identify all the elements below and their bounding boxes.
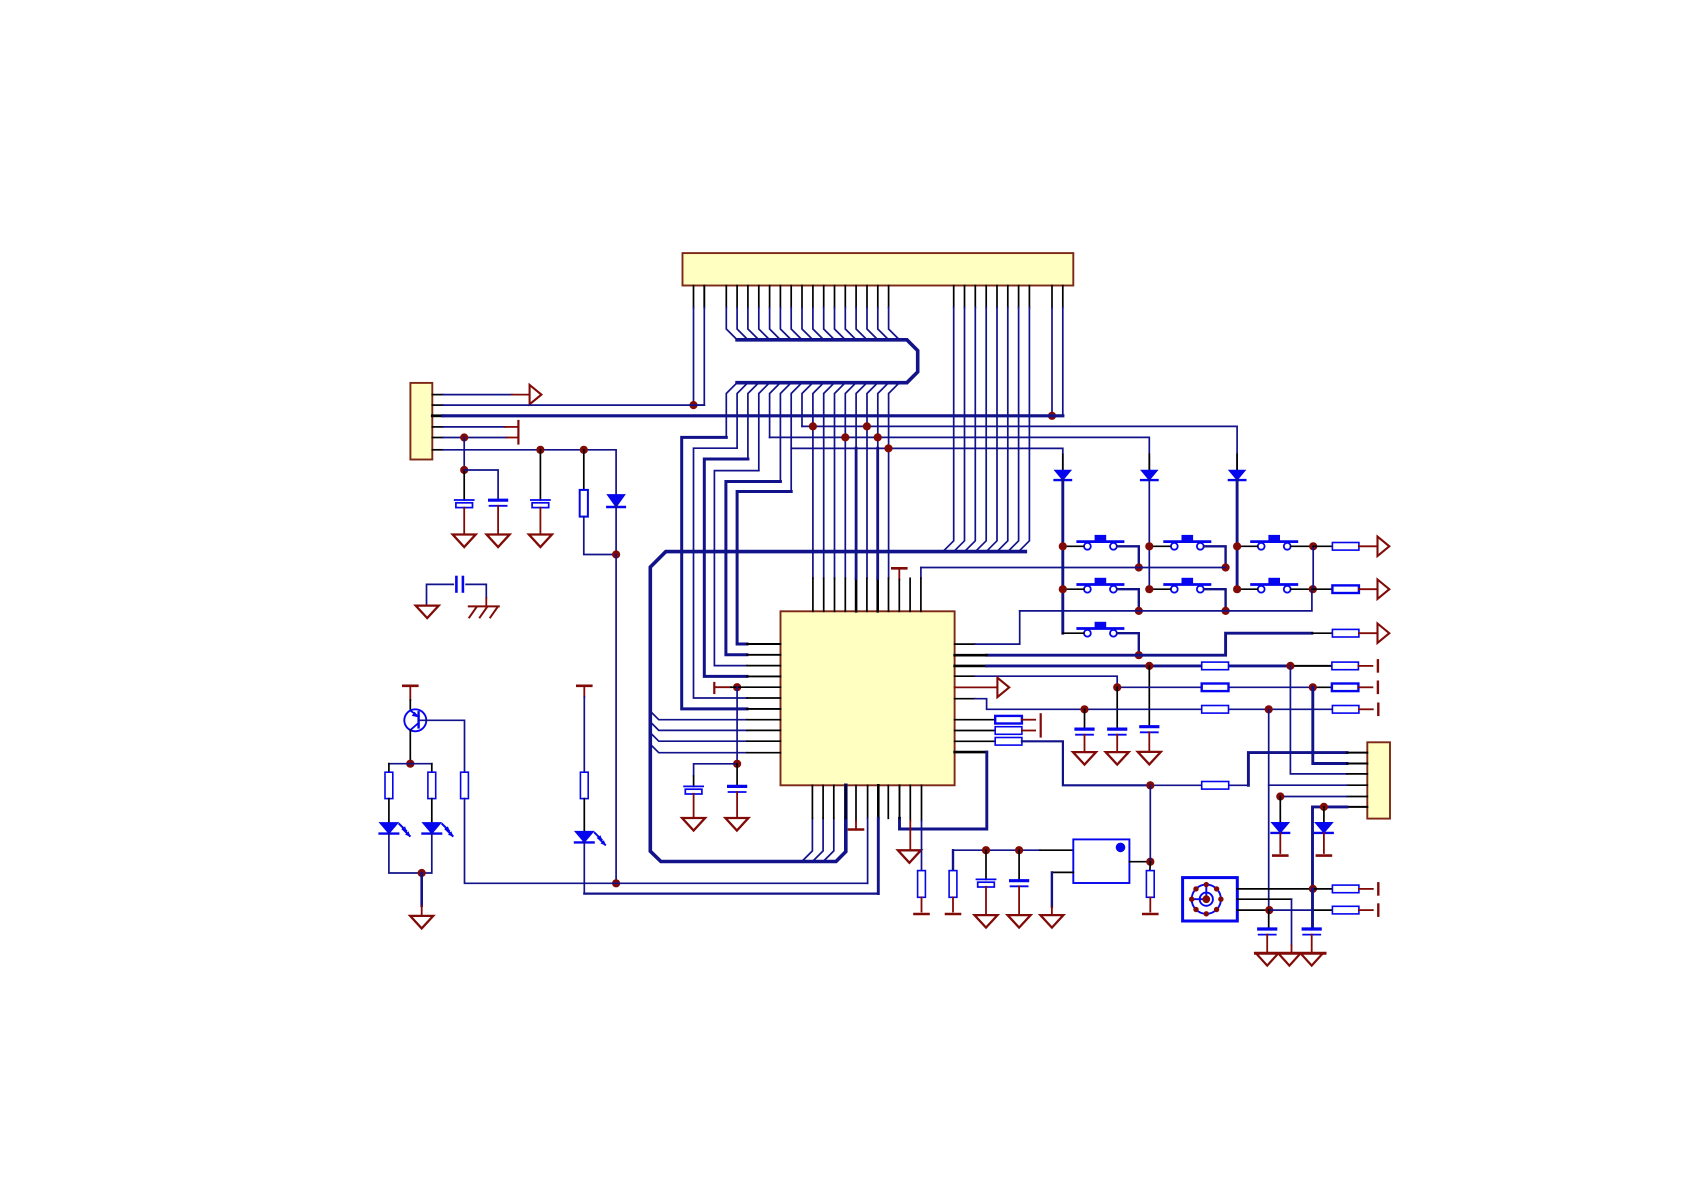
diode D2 bbox=[1062, 454, 1064, 470]
junction regout bbox=[1146, 858, 1154, 866]
wire J1 pin2 jog bbox=[703, 286, 705, 308]
connector J3 (right) bbox=[1367, 742, 1390, 818]
ground LEDs bbox=[410, 916, 433, 929]
wire row net 687 bbox=[1117, 686, 1202, 688]
connector J1 (top header) bbox=[683, 253, 1074, 285]
resistor RB3 bbox=[1146, 871, 1154, 898]
ground KC1 bbox=[1138, 752, 1161, 765]
junction LED gnd bbox=[418, 869, 426, 877]
wire row net RA bbox=[802, 426, 1237, 470]
junction 687a bbox=[1113, 683, 1121, 691]
transistor Q1 bbox=[404, 709, 426, 731]
ground KC3 bbox=[1073, 752, 1096, 765]
diode D1 bbox=[607, 495, 625, 507]
ground CB1 bbox=[975, 915, 998, 928]
wire row net RC bbox=[791, 448, 1063, 470]
wire IC pin R8 resistor bbox=[955, 730, 996, 732]
wire LED rail bottom bbox=[389, 834, 432, 873]
ground CB2 bbox=[1008, 915, 1031, 928]
wire loop left exit lines bbox=[650, 711, 747, 720]
junction 665a bbox=[1145, 662, 1153, 670]
wire RF pinA net bbox=[1237, 888, 1313, 890]
resistor R1 bbox=[580, 490, 588, 517]
wire R1 bottom jog bbox=[584, 517, 616, 555]
ground crystal left bbox=[416, 606, 439, 619]
port P3 (arrow) bbox=[1378, 580, 1390, 599]
bus B1 (thick hairpin) bbox=[737, 340, 918, 383]
wire keypad row2 return bbox=[1020, 589, 1312, 611]
junction 709b bbox=[1265, 705, 1273, 713]
wire resistor R1 branch bbox=[583, 450, 585, 490]
wire LED gnd stem bbox=[420, 873, 423, 906]
ground C1 bbox=[453, 535, 476, 548]
capacitor C3 bbox=[531, 499, 550, 501]
wire cap C2 branch bbox=[464, 470, 498, 500]
resistor RP1 bbox=[1332, 543, 1359, 551]
wire port row 3 lead bbox=[1312, 632, 1333, 634]
wire crystal right bbox=[466, 584, 486, 598]
wire RL1 to LED1 bbox=[388, 799, 390, 823]
wire IC pin R9 net (VCC) bbox=[955, 740, 996, 742]
junction pin5 cap bbox=[460, 433, 468, 441]
capacitor KC1 bbox=[1141, 725, 1158, 728]
wire cap CB2 branch bbox=[1018, 850, 1020, 881]
resistor RR2 bbox=[995, 727, 1022, 735]
resistor R665L bbox=[1202, 662, 1229, 670]
terminal RB2 bbox=[946, 913, 960, 916]
wire J1 pin1 to net bbox=[693, 286, 695, 308]
diode D4 bbox=[1236, 454, 1238, 470]
wire IC pin R7 resistor bbox=[955, 719, 996, 721]
capacitor CB2 bbox=[1011, 879, 1028, 882]
wire row net RB bbox=[770, 437, 1150, 470]
junction RC1 bbox=[884, 444, 892, 452]
wire diode net down bbox=[615, 504, 617, 554]
wire IC top pin 921 from row net bbox=[920, 568, 922, 579]
wire VCC feed down bbox=[1149, 785, 1151, 861]
wire cap C1 branch bbox=[463, 438, 465, 471]
capacitor C2 bbox=[490, 499, 507, 502]
wire keypad row3 return (thick) bbox=[987, 633, 1312, 655]
wire loop bottom exit lines bbox=[802, 818, 813, 861]
wire regout resistor bbox=[1149, 862, 1151, 871]
wire J1 pin17 column bbox=[1051, 286, 1053, 308]
LED LD3 bbox=[575, 831, 594, 842]
wire IC bottom pin net A bbox=[867, 785, 869, 818]
wire S6 leads bbox=[1237, 588, 1257, 590]
wire 1290 to J3 pin3 bbox=[1290, 666, 1347, 774]
wire key column K2 bbox=[1148, 480, 1150, 589]
crystal Y1 bbox=[455, 577, 458, 592]
wire IC top pin 911 stub bbox=[909, 578, 911, 611]
wire IC bottom gnd pin bbox=[909, 785, 911, 820]
wire J1 pin18 column bbox=[1062, 286, 1064, 308]
wire cap CB1 branch bbox=[985, 850, 987, 879]
push button S7 bbox=[1078, 627, 1123, 630]
voltage regulator U2 bbox=[1073, 839, 1129, 883]
wire S5 leads bbox=[1149, 588, 1170, 590]
no-connect bar bbox=[517, 421, 519, 444]
capacitor CB1 bbox=[977, 878, 996, 880]
junction pin6 a bbox=[536, 446, 544, 454]
wire LED RD1 lead bbox=[1279, 797, 1281, 823]
wire pin4 down bbox=[1268, 785, 1270, 910]
wire RF pinB gnd bbox=[1237, 898, 1291, 900]
wire J2 pin1 bbox=[432, 394, 443, 396]
terminal RB1 bbox=[915, 913, 929, 916]
wire IC bottom stub bbox=[887, 785, 889, 818]
earth ground crystal right bbox=[469, 605, 499, 607]
push button S5 bbox=[1165, 583, 1210, 586]
capacitor UC2 bbox=[729, 785, 746, 788]
wire RL4 to LED3 bbox=[583, 799, 585, 832]
wire cap KC1 branch bbox=[1148, 666, 1150, 727]
ground UC1 bbox=[682, 818, 705, 831]
resistor R709R bbox=[1332, 706, 1359, 714]
wire staircase jog B bbox=[694, 448, 748, 698]
junction RA2 bbox=[863, 422, 871, 430]
wire IC pin R10 thick link bbox=[955, 751, 987, 754]
resistor R687R (thick) bbox=[1332, 684, 1359, 692]
terminal T687 bbox=[1358, 686, 1372, 688]
bus row net 665 (thick) bbox=[955, 665, 987, 668]
LED LD2 bbox=[423, 823, 442, 834]
junction RB2 bbox=[874, 433, 882, 441]
wire key column K3 (thick) bbox=[1236, 480, 1239, 589]
wire right pin group columns bbox=[953, 286, 955, 308]
RF module X1 (joystick) bbox=[1183, 878, 1238, 921]
junction RF C bbox=[1265, 906, 1273, 914]
terminal T665 bbox=[1358, 665, 1372, 667]
junction VCC bbox=[1146, 781, 1154, 789]
resistor RB1 bbox=[918, 871, 926, 898]
wire cap RC1 branch bbox=[1268, 910, 1270, 929]
push button S3 bbox=[1252, 540, 1297, 543]
port P2 (arrow) bbox=[1378, 537, 1390, 556]
resistor R709L bbox=[1202, 706, 1229, 714]
capacitor KC2 bbox=[1109, 727, 1126, 730]
junction LED R1 bbox=[1276, 792, 1284, 800]
LED RD1 bbox=[1272, 823, 1290, 833]
wire S1 leads bbox=[1063, 545, 1084, 547]
wire J3 pin5 net bbox=[1347, 796, 1367, 798]
wire regulator input net bbox=[953, 849, 1040, 851]
junction pin17 bbox=[1048, 412, 1056, 420]
junction pins1-2 bbox=[689, 401, 697, 409]
push button S2 bbox=[1165, 540, 1210, 543]
capacitor KC3 bbox=[1076, 727, 1093, 730]
resistor RL4 bbox=[580, 772, 588, 798]
no-connect bar RR bbox=[1040, 714, 1042, 736]
port P4 (arrow) bbox=[1378, 624, 1390, 643]
junction diode net low bbox=[612, 879, 620, 887]
wire Q1 emitter down bbox=[409, 730, 411, 764]
ground C2 bbox=[487, 535, 510, 548]
wire J2 pin4 to NC bar bbox=[432, 426, 443, 428]
junction 687b bbox=[1309, 683, 1317, 691]
junction regin a bbox=[982, 846, 990, 854]
resistor RF1 bbox=[1332, 885, 1359, 893]
connector J2 (left) bbox=[410, 383, 432, 460]
terminal LED RD2 bbox=[1317, 854, 1331, 857]
wire IC pin R1 jog bbox=[955, 643, 975, 645]
wire cap KC2 branch bbox=[1116, 687, 1118, 729]
wire IC left cap net bbox=[736, 687, 738, 764]
wire IC top thick columns bbox=[855, 448, 858, 578]
junction cap net bbox=[733, 760, 741, 768]
junction LED R2 bbox=[1320, 803, 1328, 811]
wire LED RD2 lead bbox=[1323, 807, 1325, 823]
wire S3-S6 port column bbox=[1312, 546, 1314, 589]
wire port row 1 lead bbox=[1313, 545, 1332, 547]
junction RF A bbox=[1309, 885, 1317, 893]
terminal RF1 bbox=[1377, 883, 1379, 894]
junction pin6 b bbox=[580, 446, 588, 454]
wire net 893 (to IC) bbox=[584, 892, 878, 894]
wire IC bottom pin net B (thick) bbox=[877, 785, 880, 818]
ground triple bbox=[1256, 952, 1326, 955]
wire staircase jog D bbox=[714, 471, 758, 666]
wire RF pinC net bbox=[1237, 909, 1269, 911]
resistor RVCC bbox=[1202, 782, 1229, 790]
LED LD1 bbox=[380, 823, 399, 834]
wire J2 pin6 net bbox=[432, 449, 443, 451]
bus 1312 to J3 pin2 (thick) bbox=[1313, 687, 1347, 763]
resistor RL2 bbox=[428, 772, 436, 798]
bus J2 pin3 thick net bbox=[432, 414, 443, 417]
capacitor RC2 bbox=[1303, 927, 1320, 930]
junction keypad bbox=[1059, 542, 1067, 550]
capacitor RC1 bbox=[1259, 927, 1276, 930]
junction 665b bbox=[1286, 662, 1294, 670]
port P1 (arrow) bbox=[530, 385, 542, 404]
junction 709a bbox=[1080, 705, 1088, 713]
junction RA1 bbox=[809, 422, 817, 430]
junction Q1 bbox=[406, 760, 414, 768]
wire J2 pin5 bbox=[432, 437, 443, 439]
wire J2 pin2 long net bbox=[432, 404, 443, 406]
resistor RR1 (thick) bbox=[995, 716, 1022, 724]
junction C1-C2 bbox=[460, 466, 468, 474]
wire key column K1 (thick) bbox=[1061, 480, 1064, 633]
wire S4 leads bbox=[1063, 588, 1084, 590]
wire staircase jog C (thick) bbox=[704, 459, 748, 676]
power stub IC bottom bbox=[855, 785, 857, 820]
power tap IC left bbox=[713, 683, 715, 693]
power stub transistor bbox=[403, 684, 417, 687]
wire cap RC2 branch bbox=[1311, 889, 1314, 929]
bus J3 pin6 net (thick) bbox=[1347, 806, 1367, 808]
push button S6 bbox=[1252, 583, 1297, 586]
resistor RF2 bbox=[1332, 906, 1359, 914]
wire cap UC1 branch bbox=[694, 764, 738, 776]
wire IC top pin stubs bbox=[812, 578, 814, 611]
wire bus columns out of bus2 bbox=[726, 383, 737, 438]
wire cap C3 branch bbox=[539, 450, 541, 500]
wire regulator output bbox=[1129, 861, 1150, 863]
port P5 (IC output arrow) bbox=[955, 686, 998, 688]
wire net 883 (to IC) bbox=[465, 799, 868, 884]
terminal RB3 bbox=[1143, 913, 1157, 916]
wire staircase jog F (thick) bbox=[737, 492, 791, 645]
power stub IC top (VCC) bbox=[892, 567, 906, 570]
wire S7 leads bbox=[1063, 632, 1084, 634]
ground C3 bbox=[529, 535, 552, 548]
junction regin b bbox=[1015, 846, 1023, 854]
wire cap UC2 branch bbox=[736, 764, 738, 787]
wire S2 leads bbox=[1149, 545, 1170, 547]
wire regulator gnd pin bbox=[1052, 871, 1073, 873]
bus B2 (loop around IC) bbox=[650, 552, 1025, 862]
push button S4 bbox=[1078, 583, 1123, 586]
ground regulator bbox=[1040, 915, 1063, 928]
capacitor UC1 bbox=[684, 785, 703, 787]
wire LED3 down bbox=[583, 842, 585, 893]
resistor RL1 bbox=[385, 772, 393, 798]
wire port row 2 lead bbox=[1312, 588, 1333, 590]
LED RD2 bbox=[1315, 823, 1333, 833]
wire Q1 collector right bbox=[420, 720, 465, 772]
wire IC bottom to R bottom bbox=[921, 785, 923, 820]
resistor RP2 bbox=[1332, 585, 1359, 593]
terminal LED RD1 bbox=[1273, 854, 1287, 857]
junction RB1 bbox=[841, 433, 849, 441]
wire staircase jog E (thick) bbox=[726, 482, 781, 655]
capacitor C1 bbox=[455, 499, 474, 501]
wire S3 leads bbox=[1237, 545, 1257, 547]
terminal T709 bbox=[1359, 708, 1373, 710]
ground UC2 bbox=[725, 818, 748, 831]
power stub LED3 bbox=[577, 684, 591, 687]
bus VCC to J3 pin1 (thick) bbox=[1248, 753, 1347, 786]
wire bus columns into bus1 bbox=[725, 286, 727, 308]
wire staircase jog A (thick) bbox=[682, 437, 747, 709]
ground KC2 bbox=[1106, 752, 1129, 765]
wire keypad row1 return bbox=[921, 567, 1226, 569]
wire crystal left bbox=[427, 584, 454, 605]
wire IC pin R3 jog bbox=[955, 675, 975, 677]
wire IC pin R5 jog bbox=[955, 698, 975, 700]
IC U1 (center) bbox=[781, 611, 955, 785]
resistor RL3 bbox=[461, 772, 469, 798]
junction diode net bbox=[612, 550, 620, 558]
wire cap KC3 branch bbox=[1084, 709, 1086, 729]
resistor RR3 bbox=[995, 738, 1022, 746]
resistor R665R bbox=[1332, 662, 1359, 670]
resistor RB2 bbox=[949, 871, 957, 898]
ground IC bottom bbox=[898, 850, 921, 863]
wire RB2 net bbox=[952, 850, 954, 870]
push button S1 bbox=[1078, 540, 1123, 543]
wire J3 pin4 net bbox=[1347, 784, 1367, 786]
terminal RF2 bbox=[1377, 905, 1379, 916]
resistor RP3 bbox=[1332, 629, 1359, 637]
wire LED rail top bbox=[389, 763, 432, 765]
resistor R687L (thick) bbox=[1202, 684, 1229, 692]
wire RL2 to LED2 bbox=[431, 799, 433, 823]
junction IC left bbox=[733, 683, 741, 691]
diode D3 bbox=[1148, 454, 1150, 470]
